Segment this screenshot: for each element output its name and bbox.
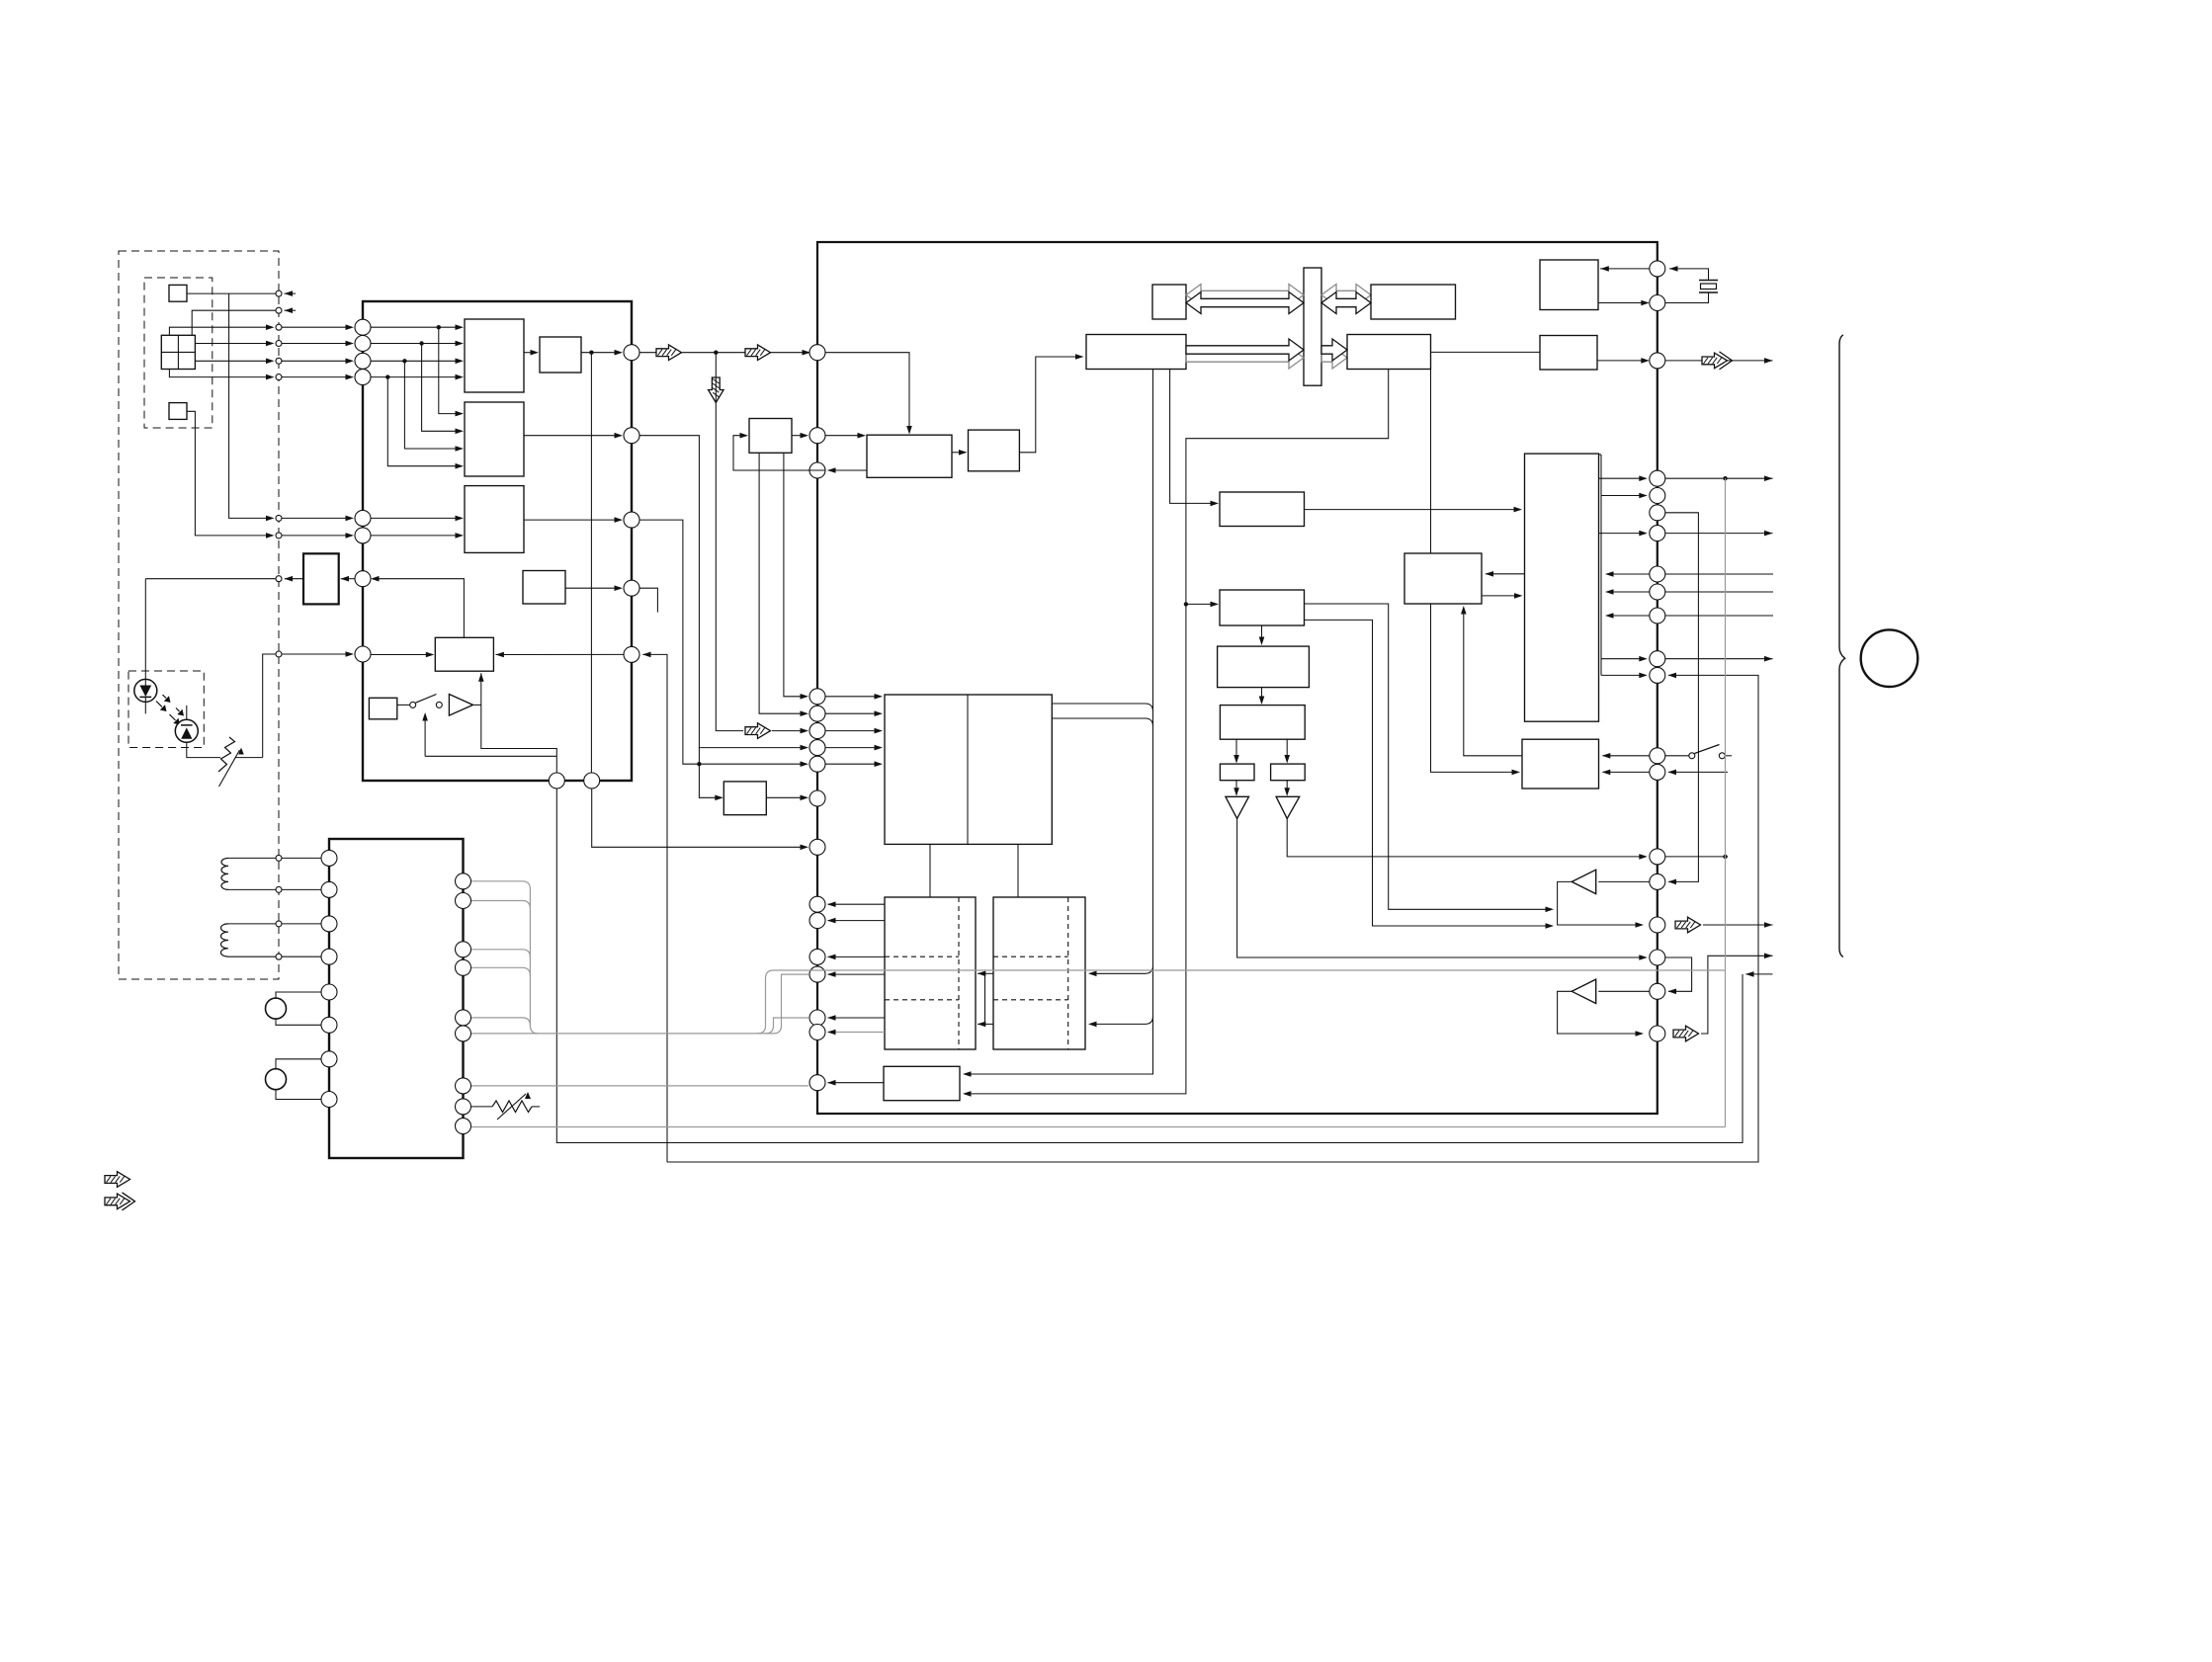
wire: detector F to connector row bbox=[187, 411, 273, 536]
wires: digital filter outputs merge to servo bus bbox=[1052, 704, 1152, 711]
wire: EFM bottom tap to servo bus (long vertical) bbox=[965, 370, 1153, 1075]
dashed enclosure: photodiode unit bbox=[144, 278, 213, 428]
wire: APC out to pickup LED bbox=[285, 578, 303, 580]
wire: RF in to PLL block bbox=[825, 353, 909, 433]
wire: RF branch down to DSP pin row 739.6 bbox=[716, 353, 743, 731]
wire: controller to servo error proc bbox=[1486, 573, 1525, 575]
block: error correction bbox=[1347, 335, 1431, 370]
wire: quad detector row B bbox=[195, 343, 272, 345]
junction: branch into servo error box bbox=[1184, 602, 1188, 606]
double open arrow: bus to RAM bbox=[1321, 285, 1371, 306]
RF amplifier IC block (thick box) bbox=[363, 301, 632, 781]
wire: servo error proc down to servo driver logic bbox=[1431, 604, 1519, 772]
driver IC right pins bbox=[456, 873, 471, 889]
block: servo error processor bbox=[1404, 553, 1482, 604]
hatched arrow: audio R out bbox=[1673, 1026, 1699, 1041]
wire: branch from pin756 line down into mute control bbox=[697, 762, 701, 766]
focus coil (inductor) bbox=[221, 858, 228, 889]
digital signal processor / system control IC (large box) bbox=[817, 242, 1658, 1114]
DSP right edge pins bbox=[1650, 261, 1665, 277]
wire: driver B long run to pin 866.9 bbox=[1287, 818, 1645, 857]
gray bus: horizontal run bbox=[471, 1033, 774, 1035]
block: divider bbox=[969, 430, 1020, 471]
spindle motor bbox=[266, 998, 287, 1019]
LED / photodiode dashed box bbox=[128, 671, 204, 748]
tracking coil (inductor) bbox=[221, 924, 228, 956]
wire: photodiode to variable resistor bbox=[187, 742, 220, 757]
hatched arrow: RF flow 2 bbox=[745, 345, 771, 361]
driver triangle A bbox=[1226, 796, 1249, 818]
wire: loop back into feedback box bbox=[733, 436, 825, 470]
double open arrow: host interface to bus bbox=[1186, 285, 1304, 306]
IC right edge pins bbox=[624, 345, 639, 361]
legend: hatched arrow double (data flow) bbox=[105, 1194, 130, 1209]
wire: driver A long run to pin 969 bbox=[1237, 818, 1646, 957]
gray long line to supply rail bbox=[774, 969, 1726, 971]
block: focus/tracking error amp bbox=[465, 402, 524, 476]
gray branch to pin 986.1 bbox=[774, 974, 809, 1034]
wire: drive bus to DSP pin 683 (long return) bbox=[667, 675, 1758, 1162]
wire: bus to pin 501.5 bbox=[1601, 495, 1645, 497]
stub arrow into pin (supply) bbox=[285, 309, 297, 311]
wires: PWM to output triangles bbox=[1235, 781, 1237, 794]
wire: error corrector down into servo error proc bbox=[1430, 370, 1432, 554]
wire: sync block to pin 306.5 bbox=[1598, 302, 1647, 304]
wire: buffer output joins M1 feedback bbox=[473, 704, 481, 706]
wire: pin 892.4 into mute amp 1 bbox=[1598, 880, 1650, 882]
block: PWM driver B bbox=[1271, 764, 1306, 781]
photo detector quad A-D (2x2 square) bbox=[161, 335, 195, 369]
LED cathode stub bbox=[144, 697, 146, 713]
switch blade bbox=[416, 695, 437, 704]
wire: pin 271.9 into sync block bbox=[1600, 268, 1650, 270]
wires: external inputs through pins 581/599/623 into bus bbox=[1665, 573, 1773, 575]
IC left edge pins bbox=[355, 319, 371, 335]
wire: external to pin 781.4 bbox=[1668, 771, 1728, 773]
wire: detector E to connector row with tap down bbox=[187, 292, 276, 294]
variable resistor RV (laser power) bbox=[218, 737, 235, 772]
wires: pll area taps to pins 704.8/722.2 bbox=[784, 453, 807, 697]
wire: mirror stub bbox=[639, 588, 657, 612]
wire: servo command down bbox=[1261, 625, 1263, 643]
wire: pin to servo IC pin row 662 bbox=[282, 653, 352, 655]
DSP left edge pins bbox=[809, 345, 825, 361]
driver triangle B bbox=[1276, 796, 1300, 818]
wire: pin 969 loop to pin 1003.3 bbox=[1665, 957, 1692, 991]
wire: quad detector row A2 (top tap) bbox=[192, 310, 276, 335]
variable resistor on driver pin bbox=[471, 1106, 492, 1108]
block: sync / timing bbox=[1540, 260, 1598, 310]
block: PLL feedback box bbox=[749, 419, 792, 454]
hatched arrow: into DSP bbox=[745, 723, 771, 739]
wires: connector pins to driver IC bbox=[282, 857, 320, 859]
block: servo command box bbox=[1220, 590, 1305, 625]
wire: M1 bottom feedback to bottom pin 563 bbox=[481, 673, 557, 773]
wire: EFM RF signal to DSP (with hatched arrows) bbox=[639, 352, 809, 354]
crystal oscillator circuit bbox=[1669, 269, 1709, 281]
mute amp 1 frame to pin 936 bbox=[1558, 881, 1642, 925]
wire: bus to pin 666.7 bbox=[1601, 658, 1645, 660]
bus bar (vertical) bbox=[1304, 268, 1321, 385]
wire: pin 440.7 into PLL block bbox=[825, 435, 864, 437]
block: laser drive amp M1 bbox=[435, 637, 493, 671]
block: servo driver logic bbox=[1522, 739, 1599, 789]
block: digital filter pair (double box) bbox=[885, 695, 1052, 844]
wire: laser sw from below into right pin 662 bbox=[642, 654, 667, 1162]
block: EFM demodulator (wide) bbox=[1086, 335, 1186, 370]
mute amp 2 triangle bbox=[1572, 979, 1596, 1003]
block: RAM bbox=[1371, 285, 1456, 319]
sled motor bbox=[266, 1069, 287, 1090]
wire: pin row 662 into M1 bbox=[372, 654, 433, 656]
hatched arrow: audio L out bbox=[1675, 917, 1701, 933]
wire: feedback box out to pin 440.7 bbox=[792, 435, 807, 437]
wire: FE/TE to DSP pin row 756.6 bbox=[639, 436, 699, 765]
wires: pin rows into RF matrix with taps to focus/tracking block bbox=[372, 326, 463, 328]
switch contacts bbox=[397, 704, 410, 706]
wire: divider up to EFM demod bbox=[1019, 357, 1081, 453]
wire: bottom pin 563 down to return bus bbox=[556, 789, 1743, 1143]
block: subcode processor bbox=[1220, 492, 1305, 527]
mute amp 1 triangle bbox=[1572, 870, 1596, 893]
wire: servo command outputs to spindle blocks bbox=[1305, 604, 1553, 909]
wire: internal vertical to bottom pin bbox=[590, 353, 592, 773]
driver IC left pins bbox=[321, 850, 337, 866]
wires: to PWM blocks bbox=[1235, 739, 1237, 761]
wire: pickup connector to LED drive line bbox=[145, 578, 275, 580]
wire: M1 top to APC pin row bbox=[373, 579, 464, 638]
LED (laser diode) symbol bbox=[134, 679, 157, 702]
block: mirror detector (small) bbox=[523, 571, 565, 605]
block: host interface bbox=[1152, 285, 1186, 319]
IC bottom edge pins bbox=[549, 773, 564, 789]
block: noise shaper B (dashed internals) bbox=[993, 897, 1085, 1049]
wire: mute block to pin 1095.7 bbox=[828, 1082, 885, 1084]
wire: E/F to DSP pin row 773.2 bbox=[639, 520, 807, 764]
wire: subcode to system controller bbox=[1305, 509, 1521, 511]
wire: resistor to pin row 662 bbox=[263, 654, 276, 758]
external input stub bbox=[1746, 973, 1773, 975]
connector circle (to mechanism) bbox=[1861, 629, 1918, 687]
gray bus: driver feedback bundle bbox=[471, 881, 530, 889]
gray return line to top right bbox=[471, 1126, 1726, 1128]
wire: quad detector row A bbox=[169, 327, 272, 335]
stub arrow into pin (supply) bbox=[285, 292, 297, 294]
photo detector F (small square) bbox=[169, 403, 187, 420]
block: interpolation / mute bbox=[884, 1066, 960, 1100]
connector pins on pickup flex (small circles) bbox=[276, 291, 282, 296]
photodiode top stub bbox=[186, 706, 188, 719]
driver IC block (bottom thick box) bbox=[329, 839, 464, 1158]
wire: quad detector row D bbox=[169, 370, 272, 377]
block: PLL / clock bbox=[867, 435, 952, 477]
block: E/F amp bbox=[465, 486, 524, 553]
wire: mirror out to right pin bbox=[565, 587, 621, 589]
wire: coefficient chain down bbox=[1261, 688, 1263, 703]
monitor photodiode symbol bbox=[175, 719, 198, 742]
block: focus coefficient box bbox=[1220, 706, 1305, 740]
block: equalizer (small) bbox=[540, 337, 581, 373]
wire: bus to pin 683.4 bbox=[1601, 674, 1645, 676]
connector: filter to shaper B bbox=[1017, 844, 1019, 897]
wire: pin 518.8 loop to pin 892.4 (test) bbox=[1665, 513, 1699, 882]
block: D/A interface bbox=[1540, 336, 1597, 371]
hatched arrow: branch down bbox=[709, 377, 724, 403]
switch control arrow bbox=[424, 714, 426, 756]
block: PWM driver A bbox=[1220, 764, 1254, 781]
block: RF matrix amp bbox=[465, 319, 524, 392]
wire: EFM bottom tap 2 to subcode block bbox=[1170, 370, 1217, 504]
gray supply rail vertical bbox=[1725, 478, 1727, 1126]
wire: right pin 662 into M1 right edge bbox=[496, 653, 624, 655]
block: system controller (tall) bbox=[1525, 454, 1599, 721]
wire: error corrector to D/A interface bbox=[1431, 351, 1541, 353]
wire: to pin 364.9 and external output with hatched arrow bbox=[1597, 360, 1647, 362]
wire: PLL to pin 476 return loop bbox=[828, 469, 868, 471]
wire: pin 866.9 to supply rail bbox=[1665, 856, 1728, 858]
wire: equalizer output to right pin with junction down to bottom pin bbox=[581, 352, 621, 354]
wire: FE/TE output to right pin bbox=[524, 435, 621, 437]
photo detector E (small square) bbox=[169, 285, 187, 301]
reset switch on pin 764.8 bbox=[1665, 755, 1689, 757]
wire: APC line down to LED bbox=[144, 579, 146, 686]
gray bus: up to long return bbox=[758, 970, 774, 1034]
buffer triangle bbox=[449, 695, 472, 716]
wire: pin 1003.3 into mute amp 2 bbox=[1598, 990, 1650, 992]
wire: mute control to DSP pin 808 bbox=[766, 796, 807, 798]
wire: error corrector bottom to servo chain bbox=[965, 370, 1389, 1094]
block: tracking coefficient RAM bbox=[1218, 646, 1310, 688]
wire: controller to pin 539.6 and external out bbox=[1599, 533, 1646, 535]
wire: pin 936 external out bbox=[1703, 924, 1773, 926]
block: noise shaper A (dashed internals) bbox=[885, 897, 976, 1049]
block: mute control (small) bbox=[723, 782, 766, 815]
wire: quad detector row C bbox=[195, 360, 272, 362]
block: switch driver (small box) bbox=[369, 698, 396, 719]
wire: switch control from bottom pin line bbox=[425, 755, 556, 757]
mute amp 2 frame to pin 1046 bbox=[1558, 991, 1642, 1034]
wire: pin 666.7 external out bbox=[1665, 658, 1773, 660]
hatched arrow: digital out bbox=[1702, 353, 1728, 369]
wire: servo error proc to controller bbox=[1482, 595, 1520, 597]
wire: controller to pin 484.2 and external out bbox=[1599, 477, 1646, 479]
ladder between shapers bbox=[978, 972, 993, 974]
wires: shaper A outputs to DSP left pins bbox=[828, 903, 886, 905]
legend: hatched arrow (signal flow) bbox=[105, 1172, 130, 1188]
brace (connector group) bbox=[1839, 335, 1845, 957]
light rays (emission arrows) bbox=[156, 702, 162, 707]
controller right side bus bbox=[1600, 455, 1602, 675]
gray wire: driver to DSP pin 1095.7 bbox=[471, 1085, 808, 1087]
wire: pin 1046 external out via jog bbox=[1701, 956, 1773, 1034]
connector: filter to shaper A bbox=[929, 844, 931, 897]
wire: E/F amp output to right pin bbox=[524, 519, 621, 521]
wires: DSP pins into digital filter bbox=[825, 696, 881, 698]
dashed enclosure: optical pickup assembly bbox=[119, 251, 279, 979]
wires: servo driver logic to pins 764.8/781.4 bbox=[1603, 755, 1650, 757]
gray branch to pin 1030 bbox=[766, 1018, 809, 1034]
open arrow: bus to error corrector bbox=[1321, 347, 1347, 369]
hatched arrow: RF flow bbox=[656, 345, 682, 361]
wires: pickup signals to servo IC pins bbox=[282, 326, 352, 328]
block: APC thick-bordered box bbox=[303, 553, 339, 604]
wire: PLL to divider bbox=[952, 452, 966, 454]
gray wire: shaper A to pin 1044.5 bbox=[828, 1032, 886, 1034]
wire: APC in from left pin row bbox=[341, 578, 355, 580]
wires: servo bus into shaper B (curved) bbox=[1090, 965, 1153, 973]
wires: pins into E/F amp bbox=[372, 517, 463, 519]
wire: bottom pin 598 up to DSP pin 857 bbox=[592, 789, 807, 847]
wire: servo driver logic up into servo error proc bbox=[1464, 608, 1522, 756]
open arrow: EFM to bus bbox=[1186, 347, 1304, 369]
wire: RF matrix to equalizer bbox=[524, 352, 537, 354]
